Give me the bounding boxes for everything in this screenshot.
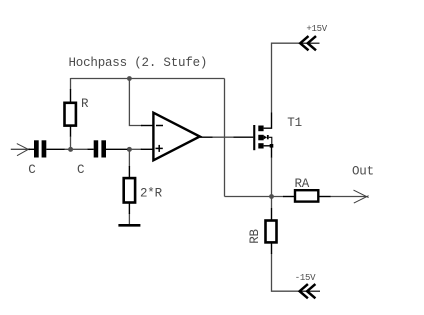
wire: feedback right vertical from top to output node [224,79,226,197]
channel segment middle [258,135,263,141]
wire: input stub at left [11,148,29,150]
source lead [264,145,272,147]
wire: left vertical from feedback to R top [70,78,72,90]
-15V supply symbol [300,284,316,298]
svg-text:Hochpass (2. Stufe): Hochpass (2. Stufe) [69,56,208,70]
drain lead [264,113,272,129]
op-amp U1 [141,113,213,161]
gate bar [253,125,255,150]
wire: 2*R bottom to ground [128,214,130,225]
transistor T1 (n-channel MOSFET) [234,113,274,158]
wire: R bottom to input node [70,136,72,149]
bulk arrow [264,135,267,139]
channel segment top [258,126,263,132]
wire: bottom horizontal output node to RA [225,196,284,198]
node: output junction dot [269,194,274,199]
svg-text:Out: Out [352,164,374,178]
resistor 2*R [124,166,135,214]
input arrow [17,144,30,156]
wire: node down to 2*R [128,149,130,166]
wire: input net between C1 and C2 [64,148,88,150]
svg-text:+15V: +15V [306,24,327,34]
svg-text:C: C [28,163,35,177]
wire: net from C2 to op-amp plus input [131,148,142,150]
wire: T1 drain up and across to +15V [272,43,300,112]
minus sign [156,125,163,127]
svg-text:RB: RB [248,228,262,243]
plus sign [156,147,163,149]
gate pin [234,136,254,138]
resistor R [65,89,76,137]
svg-text:RA: RA [295,177,310,191]
capacitor C2 [88,140,128,157]
channel segment bottom [258,143,263,148]
svg-text:C: C [77,163,84,177]
wire: output node down to RB [271,197,273,209]
capacitor C1 [29,140,65,157]
resistor RB [266,208,277,254]
resistor RA [283,190,331,201]
wire: RB bottom down and across to -15V [272,254,300,292]
svg-text:R: R [81,97,89,111]
ground [118,224,140,227]
node: junction dot between capacitors [68,147,73,152]
wire: op-amp output to T1 gate [213,136,234,138]
wire: top feedback horizontal net [71,78,225,80]
+15V supply symbol [300,36,316,50]
wire: T1 source down to output node [271,157,273,197]
svg-text:2*R: 2*R [140,187,163,201]
node: junction dot on feedback top line [127,76,132,81]
svg-text:-15V: -15V [295,273,316,283]
wire: feedback vertical down to inverting input corner [129,79,142,126]
node: junction dot at op-amp plus input [127,147,132,152]
out arrow [354,190,369,203]
source junction square [270,144,274,148]
wire: RA right to out arrow [330,196,367,198]
svg-text:T1: T1 [287,116,302,130]
